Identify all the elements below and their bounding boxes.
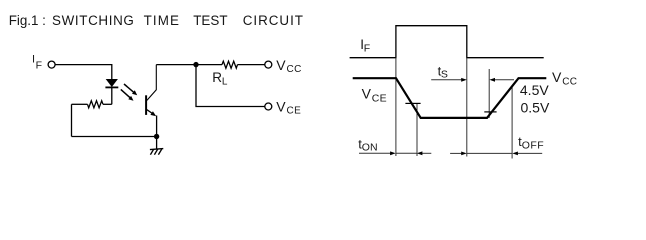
terminal VCE [265,103,272,110]
svg-text:CIRCUIT: CIRCUIT [243,13,304,28]
svg-text:0.5V: 0.5V [521,100,550,116]
svg-text:I: I [32,54,35,66]
svg-text:4.5V: 4.5V [520,82,549,98]
wire LED cathode down [111,87,113,104]
measure vertical v2 (VCE fall threshold) [416,103,418,156]
wire collector top rail [156,64,222,66]
svg-text:TEST: TEST [193,13,227,28]
tS arrow right (points left at v4) [489,78,514,82]
VCE waveform [353,78,547,118]
label tS [438,63,448,80]
junction dot (emitter / ground node) [154,134,159,139]
svg-text:V: V [276,57,286,73]
tON arrow right (points left at v2) [417,151,432,155]
svg-text:V: V [552,69,562,85]
measure vertical v3 (IF fall) [466,58,468,157]
resistor (LED series) [72,101,112,108]
svg-text:F: F [364,43,370,55]
label VCE (waveform) [362,86,387,105]
label VCC (waveform right) [552,69,577,88]
label tON [358,136,377,153]
measure vertical v5 (VCE 4.5V) [511,87,513,159]
phototransistor Q1 [146,65,157,137]
svg-text:CE: CE [287,105,302,116]
junction node (collector / RL / VCE tap) [193,62,198,67]
tON arrow left (points right at v1) [359,151,396,155]
title Fig.1 : SWITCHING TIME TEST CIRCUIT [9,13,304,28]
measure vertical v1 (IF rise) [395,58,397,156]
svg-text:S: S [441,69,448,81]
svg-text:CC: CC [562,76,577,87]
label VCE (circuit) [276,98,301,116]
svg-text:CC: CC [287,64,302,75]
svg-text:TIME: TIME [144,13,180,28]
tON span line [396,152,417,154]
tS arrow left (points right at v3) [431,78,467,82]
svg-text:L: L [222,77,228,88]
wire bottom rail [72,136,157,138]
svg-text:V: V [362,86,372,102]
tOFF arrow left (points right at v3) [450,152,467,156]
wire left vertical [71,104,73,136]
threshold tick on falling edge [405,102,420,104]
label IF (input terminal) [32,54,42,72]
svg-text:ON: ON [362,141,378,153]
threshold tick on rising edge [484,111,496,113]
label RL [212,70,228,88]
svg-text:R: R [212,70,222,85]
svg-text:SWITCHING: SWITCHING [52,13,134,28]
IF waveform [350,26,544,58]
tOFF span line [467,152,512,154]
label IF (waveform) [360,37,370,55]
svg-text:OFF: OFF [522,139,545,151]
svg-text:V: V [276,98,286,114]
label tOFF [518,134,544,152]
svg-text:F: F [36,59,42,71]
terminal IF [48,61,55,68]
svg-text:Fig.1 :: Fig.1 : [9,13,46,28]
tOFF arrow right (points left at v5) [512,152,542,156]
wire IF terminal to LED anode [55,65,112,80]
terminal VCC [265,61,272,68]
ground [150,137,163,155]
wire VCE branch [196,65,265,107]
label VCC (circuit) [276,57,301,75]
resistor RL [222,61,265,68]
LED D1 [105,79,118,87]
svg-text:CE: CE [372,92,387,104]
light emission arrows [121,84,137,101]
measure vertical v4 (VCE rise start) [488,69,490,118]
